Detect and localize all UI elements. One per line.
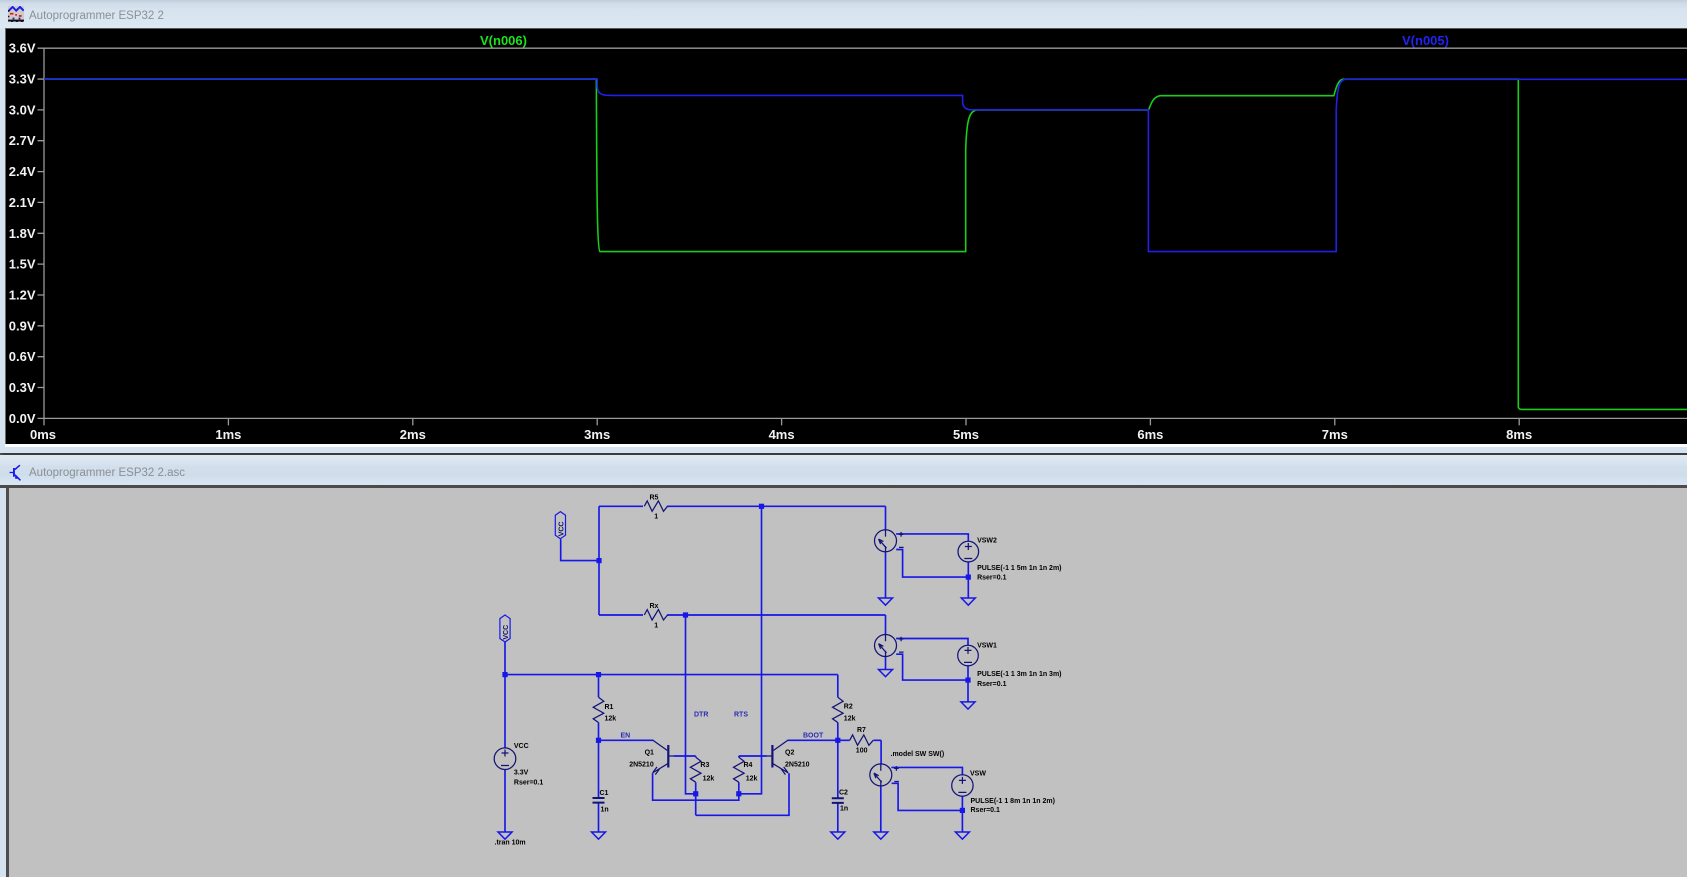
svg-text:12k: 12k [746, 775, 758, 782]
svg-text:1.5V: 1.5V [9, 257, 36, 272]
svg-text:.model SW SW(): .model SW SW() [891, 751, 945, 758]
svg-text:6ms: 6ms [1137, 427, 1163, 442]
svg-text:Rser=0.1: Rser=0.1 [977, 575, 1006, 582]
svg-text:2.7V: 2.7V [9, 133, 36, 148]
svg-text:0.9V: 0.9V [9, 318, 36, 333]
svg-text:V(n005): V(n005) [1402, 33, 1449, 48]
svg-text:1.8V: 1.8V [9, 226, 36, 241]
svg-text:3.0V: 3.0V [9, 102, 36, 117]
svg-text:R4: R4 [744, 762, 753, 769]
svg-text:Q1: Q1 [645, 750, 654, 757]
svg-text:3.3V: 3.3V [514, 770, 529, 777]
svg-text:RTS: RTS [734, 712, 748, 719]
svg-text:12k: 12k [703, 775, 715, 782]
svg-text:Q2: Q2 [785, 750, 794, 757]
svg-text:2ms: 2ms [400, 427, 426, 442]
svg-text:VSW1: VSW1 [977, 643, 997, 650]
svg-text:12k: 12k [605, 715, 617, 722]
svg-text:100: 100 [856, 748, 868, 755]
svg-text:2.1V: 2.1V [9, 195, 36, 210]
svg-text:DTR: DTR [694, 712, 708, 719]
svg-text:1n: 1n [840, 806, 848, 813]
svg-text:4ms: 4ms [769, 427, 795, 442]
svg-text:BOOT: BOOT [803, 733, 824, 740]
svg-text:Rser=0.1: Rser=0.1 [971, 807, 1000, 814]
svg-text:R3: R3 [700, 762, 709, 769]
svg-text:V(n006): V(n006) [480, 33, 527, 48]
svg-text:1: 1 [654, 514, 658, 521]
svg-text:2.4V: 2.4V [9, 164, 36, 179]
svg-text:1.2V: 1.2V [9, 288, 36, 303]
svg-text:Rser=0.1: Rser=0.1 [977, 681, 1006, 688]
svg-text:R1: R1 [605, 704, 614, 711]
svg-text:VCC: VCC [559, 522, 566, 537]
svg-text:VSW2: VSW2 [977, 538, 997, 545]
svg-text:VSW: VSW [970, 771, 986, 778]
svg-text:1n: 1n [601, 807, 609, 814]
svg-text:0.6V: 0.6V [9, 349, 36, 364]
svg-text:0.3V: 0.3V [9, 380, 36, 395]
svg-text:7ms: 7ms [1322, 427, 1348, 442]
svg-text:2N5210: 2N5210 [629, 761, 654, 768]
svg-text:C1: C1 [600, 790, 609, 797]
svg-text:12k: 12k [844, 715, 856, 722]
svg-text:R2: R2 [844, 704, 853, 711]
svg-text:0ms: 0ms [30, 427, 56, 442]
svg-text:3.3V: 3.3V [9, 72, 36, 87]
svg-text:1ms: 1ms [215, 427, 241, 442]
svg-text:PULSE(-1 1 5m 1n 1n 2m): PULSE(-1 1 5m 1n 1n 2m) [977, 565, 1061, 572]
svg-text:R7: R7 [857, 727, 866, 734]
svg-text:C2: C2 [839, 790, 848, 797]
svg-text:VCC: VCC [514, 743, 529, 750]
svg-text:EN: EN [621, 733, 631, 740]
svg-text:.tran 10m: .tran 10m [495, 840, 526, 847]
svg-text:3.6V: 3.6V [9, 41, 36, 56]
svg-text:1: 1 [654, 622, 658, 629]
svg-text:PULSE(-1 1 3m 1n 1n 3m): PULSE(-1 1 3m 1n 1n 3m) [977, 671, 1061, 678]
svg-text:Rx: Rx [650, 603, 659, 610]
svg-text:8ms: 8ms [1506, 427, 1532, 442]
svg-text:3ms: 3ms [584, 427, 610, 442]
svg-text:VCC: VCC [503, 625, 510, 640]
svg-text:R5: R5 [650, 494, 659, 501]
svg-text:PULSE(-1 1 8m 1n 1n 2m): PULSE(-1 1 8m 1n 1n 2m) [971, 798, 1055, 805]
svg-text:Rser=0.1: Rser=0.1 [514, 780, 543, 787]
svg-text:2N5210: 2N5210 [785, 761, 810, 768]
svg-text:5ms: 5ms [953, 427, 979, 442]
svg-text:0.0V: 0.0V [9, 411, 36, 426]
